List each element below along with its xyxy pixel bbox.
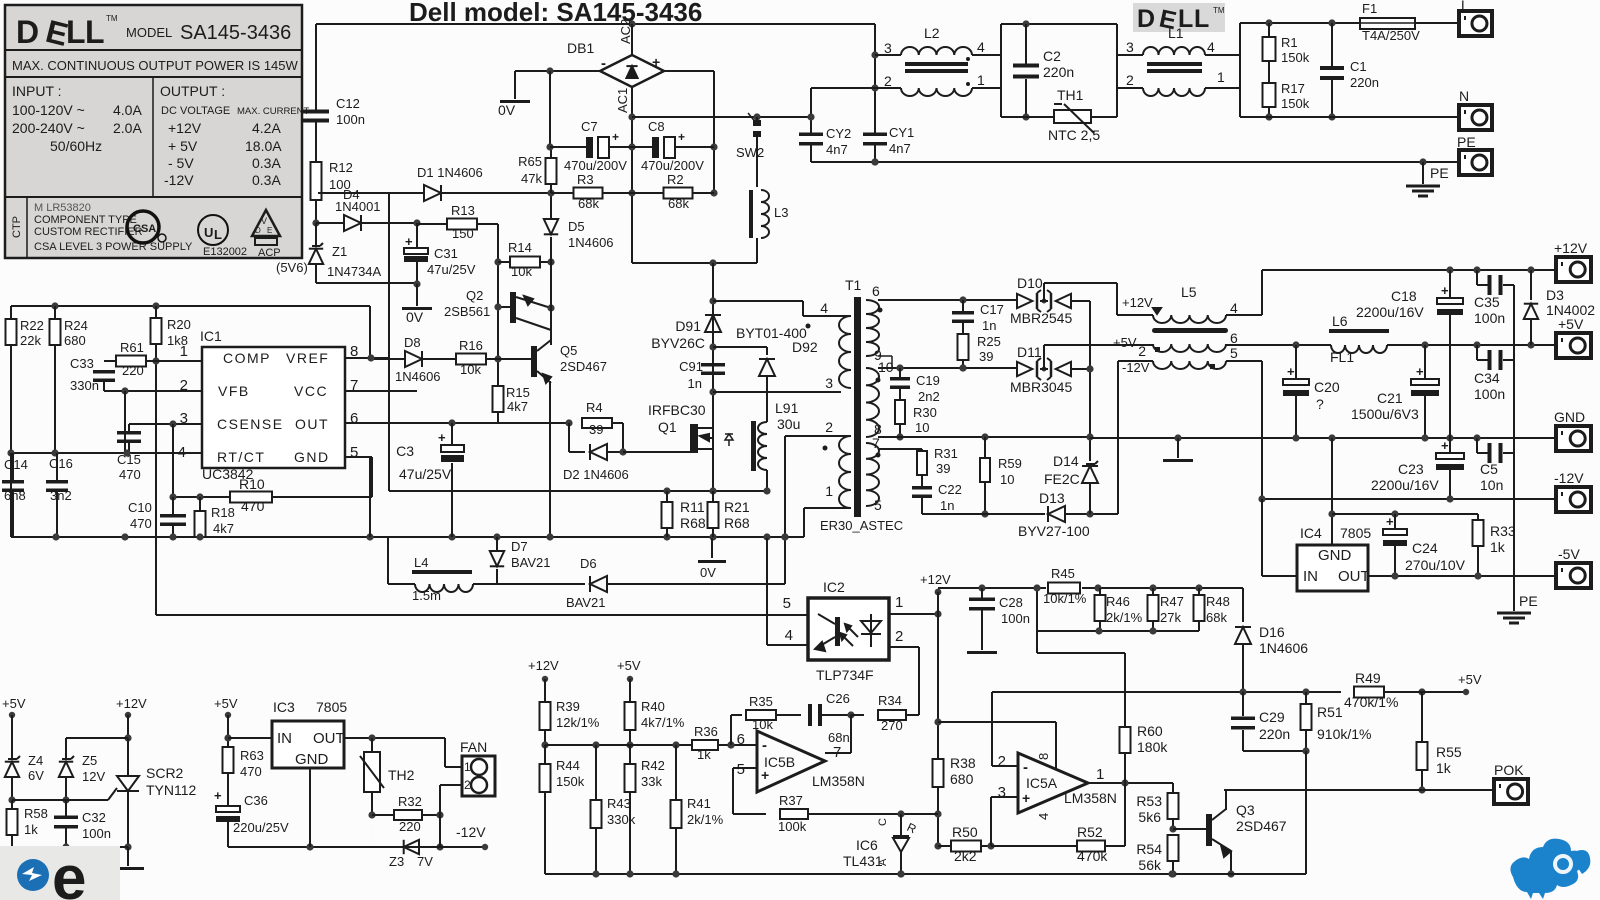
svg-text:200-240V ~: 200-240V ~ xyxy=(12,120,85,136)
svg-text:CSA LEVEL 3 POWER SUPPLY: CSA LEVEL 3 POWER SUPPLY xyxy=(34,241,193,253)
svg-text:OUT: OUT xyxy=(1338,568,1370,585)
svg-text:(5V6): (5V6) xyxy=(276,260,308,275)
svg-text:470u/200V: 470u/200V xyxy=(641,158,704,173)
svg-text:220n: 220n xyxy=(1043,64,1074,80)
svg-text:1: 1 xyxy=(825,483,833,499)
svg-text:12k/1%: 12k/1% xyxy=(556,715,600,730)
svg-text:10k/1%: 10k/1% xyxy=(1043,591,1087,606)
svg-text:VCC: VCC xyxy=(294,383,328,399)
svg-text:M LR53820: M LR53820 xyxy=(34,202,91,214)
svg-text:+: + xyxy=(1416,364,1424,379)
svg-text:OUT: OUT xyxy=(313,730,345,747)
svg-text:C7: C7 xyxy=(581,119,598,134)
svg-text:C29: C29 xyxy=(1259,709,1285,725)
svg-text:R43: R43 xyxy=(607,796,631,811)
svg-text:6: 6 xyxy=(737,731,745,748)
svg-text:4: 4 xyxy=(1207,39,1215,55)
svg-text:L: L xyxy=(66,14,86,50)
svg-text:CY1: CY1 xyxy=(889,125,914,140)
svg-text:V: V xyxy=(261,216,267,226)
svg-text:+12V: +12V xyxy=(528,658,559,673)
svg-text:C2: C2 xyxy=(1043,48,1061,64)
svg-text:MAX. CONTINUOUS OUTPUT POWER I: MAX. CONTINUOUS OUTPUT POWER IS 145W xyxy=(12,58,299,73)
svg-text:3: 3 xyxy=(884,40,892,56)
svg-text:TH2: TH2 xyxy=(388,767,415,783)
svg-text:SW2: SW2 xyxy=(736,145,764,160)
svg-text:R17: R17 xyxy=(1281,81,1305,96)
svg-text:150: 150 xyxy=(452,226,474,241)
svg-text:100n: 100n xyxy=(82,826,111,841)
svg-text:1N4606: 1N4606 xyxy=(395,369,441,384)
svg-text:100k: 100k xyxy=(778,819,807,834)
svg-text:TM: TM xyxy=(1213,6,1225,15)
svg-text:SA145-3436: SA145-3436 xyxy=(180,22,291,44)
svg-text:R55: R55 xyxy=(1436,744,1462,760)
svg-text:2.0A: 2.0A xyxy=(113,120,142,136)
svg-text:AC1: AC1 xyxy=(615,88,630,113)
svg-text:CY2: CY2 xyxy=(826,126,851,141)
svg-text:R32: R32 xyxy=(398,794,422,809)
svg-text:R30: R30 xyxy=(913,405,937,420)
svg-text:VREF: VREF xyxy=(286,350,329,366)
svg-text:4: 4 xyxy=(1230,300,1238,316)
svg-text:6n8: 6n8 xyxy=(4,488,26,503)
svg-text:NTC 2,5: NTC 2,5 xyxy=(1048,127,1100,143)
svg-text:T4A/250V: T4A/250V xyxy=(1362,28,1420,43)
svg-text:IC2: IC2 xyxy=(823,579,845,595)
svg-text:D3: D3 xyxy=(1546,287,1564,303)
svg-text:L1: L1 xyxy=(1168,25,1184,41)
svg-text:LM358N: LM358N xyxy=(812,773,865,789)
svg-text:1N4606: 1N4606 xyxy=(1259,640,1308,656)
svg-text:2k/1%: 2k/1% xyxy=(1106,610,1143,625)
svg-text:R42: R42 xyxy=(641,758,665,773)
svg-text:D16: D16 xyxy=(1259,624,1285,640)
svg-text:1: 1 xyxy=(977,72,985,88)
svg-text:5k6: 5k6 xyxy=(1138,809,1161,825)
svg-text:-: - xyxy=(601,55,606,72)
svg-text:27k: 27k xyxy=(1160,610,1181,625)
svg-text:+: + xyxy=(214,788,222,803)
svg-text:+12V: +12V xyxy=(1122,295,1153,310)
svg-text:R48: R48 xyxy=(1206,594,1230,609)
svg-text:Q5: Q5 xyxy=(560,343,577,358)
svg-text:L91: L91 xyxy=(775,400,799,416)
svg-text:2200u/16V: 2200u/16V xyxy=(1356,304,1424,320)
svg-text:?: ? xyxy=(1316,396,1324,412)
svg-text:ER30_ASTEC: ER30_ASTEC xyxy=(820,518,903,533)
svg-text:2: 2 xyxy=(884,73,892,89)
svg-text:C17: C17 xyxy=(980,302,1004,317)
svg-text:OUT: OUT xyxy=(295,416,329,432)
svg-text:2200u/16V: 2200u/16V xyxy=(1371,477,1439,493)
svg-text:Z1: Z1 xyxy=(332,244,347,259)
svg-text:+5V: +5V xyxy=(1558,316,1584,332)
svg-text:L: L xyxy=(1194,5,1209,33)
svg-text:4.2A: 4.2A xyxy=(252,120,281,136)
svg-text:1n: 1n xyxy=(940,498,954,513)
svg-text:D: D xyxy=(255,226,261,235)
svg-text:+5V: +5V xyxy=(617,658,641,673)
svg-text:1k8: 1k8 xyxy=(167,333,188,348)
svg-text:D1 1N4606: D1 1N4606 xyxy=(417,165,483,180)
svg-text:18.0A: 18.0A xyxy=(245,138,282,154)
svg-text:56k: 56k xyxy=(1138,857,1162,873)
svg-text:2: 2 xyxy=(1126,72,1134,88)
svg-text:N: N xyxy=(1459,88,1469,104)
svg-text:+5V: +5V xyxy=(1113,335,1137,350)
svg-text:1: 1 xyxy=(1217,69,1225,85)
svg-text:R4: R4 xyxy=(586,400,603,415)
svg-text:L: L xyxy=(214,227,222,242)
svg-text:3n2: 3n2 xyxy=(50,488,72,503)
svg-text:1n: 1n xyxy=(688,376,702,391)
svg-text:150k: 150k xyxy=(556,774,585,789)
svg-text:4k7/1%: 4k7/1% xyxy=(641,715,685,730)
svg-text:TLP734F: TLP734F xyxy=(816,667,874,683)
svg-text:D10: D10 xyxy=(1017,275,1043,291)
svg-text:8: 8 xyxy=(1036,753,1051,760)
svg-text:3: 3 xyxy=(1126,39,1134,55)
svg-text:R35: R35 xyxy=(749,694,773,709)
svg-text:R14: R14 xyxy=(508,240,532,255)
svg-text:1k: 1k xyxy=(697,747,711,762)
svg-text:U: U xyxy=(204,225,213,240)
svg-text:+: + xyxy=(405,234,413,249)
svg-text:C91: C91 xyxy=(679,359,703,374)
svg-text:220: 220 xyxy=(399,819,421,834)
svg-text:FAN: FAN xyxy=(460,739,487,755)
svg-text:10: 10 xyxy=(1000,472,1014,487)
svg-text:100-120V ~: 100-120V ~ xyxy=(12,102,85,118)
svg-text:39: 39 xyxy=(589,422,603,437)
svg-text:0V: 0V xyxy=(498,102,516,118)
svg-text:22k: 22k xyxy=(20,333,41,348)
svg-text:TYN112: TYN112 xyxy=(146,782,197,798)
svg-text:6: 6 xyxy=(1230,330,1238,346)
svg-text:C23: C23 xyxy=(1398,461,1424,477)
svg-text:470: 470 xyxy=(241,498,265,514)
svg-text:47k: 47k xyxy=(521,171,542,186)
svg-text:IC5A: IC5A xyxy=(1026,775,1058,791)
svg-text:150k: 150k xyxy=(1281,96,1310,111)
svg-text:BYT01-400: BYT01-400 xyxy=(736,325,807,341)
svg-text:2k2: 2k2 xyxy=(954,848,977,864)
svg-text:R45: R45 xyxy=(1051,566,1075,581)
svg-text:TM: TM xyxy=(106,14,118,23)
svg-text:+12V: +12V xyxy=(1554,240,1588,256)
svg-text:100n: 100n xyxy=(1001,611,1030,626)
svg-text:R10: R10 xyxy=(239,476,265,492)
svg-text:470u/200V: 470u/200V xyxy=(564,158,627,173)
svg-text:C33: C33 xyxy=(70,356,94,371)
svg-text:POK: POK xyxy=(1494,762,1524,778)
svg-text:5: 5 xyxy=(783,595,791,612)
svg-text:R68: R68 xyxy=(680,515,706,531)
svg-text:C8: C8 xyxy=(648,119,665,134)
svg-text:7805: 7805 xyxy=(316,699,347,715)
svg-text:L5: L5 xyxy=(1181,284,1197,300)
svg-text:220n: 220n xyxy=(1350,75,1379,90)
svg-text:6V: 6V xyxy=(28,768,44,783)
svg-text:C34: C34 xyxy=(1474,370,1500,386)
svg-text:2: 2 xyxy=(998,753,1006,770)
svg-text:39: 39 xyxy=(979,349,993,364)
svg-text:LM358N: LM358N xyxy=(1064,790,1117,806)
svg-text:R47: R47 xyxy=(1160,594,1184,609)
svg-text:+12V: +12V xyxy=(116,696,147,711)
svg-text:+: + xyxy=(612,130,619,144)
svg-text:GND: GND xyxy=(1554,409,1585,425)
svg-text:R51: R51 xyxy=(1317,704,1343,720)
svg-text:Z4: Z4 xyxy=(28,753,43,768)
svg-text:C18: C18 xyxy=(1391,288,1417,304)
svg-text:C32: C32 xyxy=(82,810,106,825)
svg-text:+12V: +12V xyxy=(920,572,951,587)
svg-text:D6: D6 xyxy=(580,556,597,571)
svg-text:IC1: IC1 xyxy=(200,328,222,344)
svg-text:L2: L2 xyxy=(924,25,940,41)
svg-text:C22: C22 xyxy=(938,482,962,497)
svg-text:1N4001: 1N4001 xyxy=(335,199,381,214)
svg-text:-12V: -12V xyxy=(1554,470,1584,486)
svg-text:1: 1 xyxy=(464,760,471,774)
svg-text:R18: R18 xyxy=(211,505,235,520)
svg-text:5: 5 xyxy=(1230,345,1238,361)
svg-text:470: 470 xyxy=(130,516,152,531)
svg-text:330k: 330k xyxy=(607,812,636,827)
svg-text:4n7: 4n7 xyxy=(826,142,848,157)
svg-text:FL1: FL1 xyxy=(1330,349,1354,365)
svg-text:R33: R33 xyxy=(1490,523,1516,539)
svg-text:D: D xyxy=(16,14,39,50)
svg-text:2: 2 xyxy=(895,628,903,645)
svg-text:INPUT :: INPUT : xyxy=(12,83,62,99)
svg-text:R60: R60 xyxy=(1137,723,1163,739)
svg-text:4: 4 xyxy=(1036,813,1051,820)
svg-text:470k: 470k xyxy=(1077,848,1108,864)
svg-text:+: + xyxy=(1386,514,1394,529)
svg-text:7V: 7V xyxy=(417,854,433,869)
svg-text:30u: 30u xyxy=(777,416,800,432)
svg-text:IC4: IC4 xyxy=(1300,525,1322,541)
svg-text:R16: R16 xyxy=(459,338,483,353)
svg-text:C5: C5 xyxy=(1480,461,1498,477)
svg-text:2: 2 xyxy=(464,778,471,792)
svg-text:50/60Hz: 50/60Hz xyxy=(50,138,102,154)
svg-text:R58: R58 xyxy=(24,806,48,821)
svg-text:1k: 1k xyxy=(24,822,38,837)
svg-text:E: E xyxy=(267,226,272,235)
svg-text:R20: R20 xyxy=(167,317,191,332)
svg-text:39: 39 xyxy=(936,461,950,476)
svg-text:R52: R52 xyxy=(1077,824,1103,840)
svg-text:+: + xyxy=(1022,790,1030,806)
svg-text:C1: C1 xyxy=(1350,59,1367,74)
svg-text:1N4734A: 1N4734A xyxy=(327,264,382,279)
svg-text:Q3: Q3 xyxy=(1236,802,1255,818)
svg-text:IRFBC30: IRFBC30 xyxy=(648,402,706,418)
svg-text:R15: R15 xyxy=(506,385,530,400)
svg-text:PE: PE xyxy=(1457,134,1476,150)
svg-text:L6: L6 xyxy=(1332,313,1348,329)
svg-text:C14: C14 xyxy=(4,457,28,472)
svg-text:R44: R44 xyxy=(556,758,580,773)
svg-text:R49: R49 xyxy=(1355,670,1381,686)
svg-text:D14: D14 xyxy=(1053,453,1079,469)
svg-text:D: D xyxy=(1137,5,1155,33)
svg-text:R41: R41 xyxy=(687,796,711,811)
svg-text:C19: C19 xyxy=(916,373,940,388)
svg-text:MODEL: MODEL xyxy=(126,25,172,40)
svg-text:1n: 1n xyxy=(982,318,996,333)
svg-text:-12V: -12V xyxy=(456,824,486,840)
svg-text:E132002: E132002 xyxy=(203,246,247,258)
svg-text:CSENSE: CSENSE xyxy=(217,416,284,432)
svg-text:AC2: AC2 xyxy=(618,19,633,44)
svg-text:GND: GND xyxy=(294,449,330,465)
svg-text:68k: 68k xyxy=(578,196,599,211)
svg-text:R11: R11 xyxy=(680,499,705,515)
svg-text:68k: 68k xyxy=(1206,610,1227,625)
svg-text:MBR2545: MBR2545 xyxy=(1010,310,1072,326)
svg-text:7805: 7805 xyxy=(1340,525,1371,541)
svg-text:0V: 0V xyxy=(700,565,716,580)
svg-text:220u/25V: 220u/25V xyxy=(233,820,289,835)
svg-text:680: 680 xyxy=(950,771,974,787)
svg-text:4n7: 4n7 xyxy=(889,141,911,156)
svg-text:100n: 100n xyxy=(336,112,365,127)
svg-text:Z3: Z3 xyxy=(389,854,404,869)
svg-text:3: 3 xyxy=(825,375,833,391)
svg-text:+: + xyxy=(1287,364,1295,379)
svg-text:47u/25V: 47u/25V xyxy=(427,262,476,277)
svg-text:220: 220 xyxy=(122,363,144,378)
svg-text:L4: L4 xyxy=(414,555,428,570)
svg-text:12V: 12V xyxy=(82,769,105,784)
svg-text:6: 6 xyxy=(350,410,358,427)
svg-text:2: 2 xyxy=(825,419,833,435)
svg-text:SCR2: SCR2 xyxy=(146,765,184,781)
svg-text:180k: 180k xyxy=(1137,739,1168,755)
svg-text:6: 6 xyxy=(872,283,880,299)
svg-text:+: + xyxy=(761,767,769,783)
svg-text:4: 4 xyxy=(785,627,793,644)
svg-text:470: 470 xyxy=(119,467,141,482)
svg-text:IC3: IC3 xyxy=(273,699,295,715)
svg-text:IN: IN xyxy=(277,730,292,747)
svg-text:1500u/6V3: 1500u/6V3 xyxy=(1351,406,1419,422)
svg-text:R37: R37 xyxy=(779,793,803,808)
svg-text:MAX. CURRENT: MAX. CURRENT xyxy=(237,106,310,117)
svg-text:R59: R59 xyxy=(998,456,1022,471)
svg-text:R63: R63 xyxy=(240,748,264,763)
svg-text:R68: R68 xyxy=(724,515,750,531)
svg-text:R50: R50 xyxy=(952,824,978,840)
svg-text:270: 270 xyxy=(881,718,903,733)
svg-text:330n: 330n xyxy=(70,378,99,393)
svg-text:C21: C21 xyxy=(1377,390,1403,406)
svg-text:470: 470 xyxy=(240,764,262,779)
svg-text:COMP: COMP xyxy=(223,350,271,366)
svg-text:PE: PE xyxy=(1519,593,1538,609)
svg-text:C36: C36 xyxy=(244,793,268,808)
svg-text:BAV21: BAV21 xyxy=(511,555,551,570)
svg-text:2SD467: 2SD467 xyxy=(1236,818,1287,834)
svg-text:150k: 150k xyxy=(1281,50,1310,65)
svg-text:2SB561: 2SB561 xyxy=(444,304,490,319)
svg-text:+: + xyxy=(652,54,660,70)
svg-text:GND: GND xyxy=(1318,547,1352,564)
svg-text:5: 5 xyxy=(874,497,882,513)
svg-text:R38: R38 xyxy=(950,755,976,771)
svg-text:33k: 33k xyxy=(641,774,662,789)
svg-text:10k: 10k xyxy=(511,264,532,279)
svg-text:CSA: CSA xyxy=(133,223,156,235)
svg-text:1N4606: 1N4606 xyxy=(568,235,614,250)
svg-text:1k: 1k xyxy=(1436,760,1452,776)
svg-text:100n: 100n xyxy=(1474,386,1505,402)
svg-text:R31: R31 xyxy=(934,446,958,461)
svg-text:Dell model: SA145-3436: Dell model: SA145-3436 xyxy=(409,0,702,27)
svg-text:+: + xyxy=(1441,438,1449,453)
svg-text:1.5m: 1.5m xyxy=(412,588,441,603)
svg-text:C35: C35 xyxy=(1474,294,1500,310)
svg-text:0V: 0V xyxy=(406,309,424,325)
svg-text:100n: 100n xyxy=(1474,310,1505,326)
svg-text:R1: R1 xyxy=(1281,35,1298,50)
svg-text:10n: 10n xyxy=(1480,477,1503,493)
svg-text:+: + xyxy=(1441,283,1449,298)
svg-text:-12V: -12V xyxy=(164,172,194,188)
svg-text:D2 1N4606: D2 1N4606 xyxy=(563,467,629,482)
svg-text:C26: C26 xyxy=(826,691,850,706)
svg-text:R65: R65 xyxy=(518,154,542,169)
svg-text:D92: D92 xyxy=(792,339,818,355)
svg-text:0.3A: 0.3A xyxy=(252,155,281,171)
svg-text:OUTPUT :: OUTPUT : xyxy=(160,83,225,99)
svg-text:D13: D13 xyxy=(1039,490,1065,506)
svg-text:C24: C24 xyxy=(1412,540,1438,556)
svg-text:10k: 10k xyxy=(460,362,481,377)
svg-text:1k: 1k xyxy=(1490,539,1506,555)
svg-text:T1: T1 xyxy=(845,277,862,293)
svg-text:+5V: +5V xyxy=(214,696,238,711)
svg-text:F1: F1 xyxy=(1362,1,1377,16)
svg-text:R39: R39 xyxy=(556,699,580,714)
svg-text:2k/1%: 2k/1% xyxy=(687,812,724,827)
svg-text:IC6: IC6 xyxy=(856,837,878,853)
svg-text:CTP: CTP xyxy=(11,216,23,238)
svg-text:COMPONENT TYPE: COMPONENT TYPE xyxy=(34,214,137,226)
svg-text:RT/CT: RT/CT xyxy=(217,449,265,465)
svg-text:GND: GND xyxy=(295,751,329,768)
svg-text:R36: R36 xyxy=(694,724,718,739)
svg-text:-: - xyxy=(1023,759,1028,776)
svg-text:ACP: ACP xyxy=(258,247,281,259)
svg-text:Z5: Z5 xyxy=(82,753,97,768)
svg-text:-5V: -5V xyxy=(1558,546,1580,562)
svg-text:+: + xyxy=(678,130,685,144)
svg-text:0.3A: 0.3A xyxy=(252,172,281,188)
svg-text:68k: 68k xyxy=(668,196,689,211)
svg-text:- 5V: - 5V xyxy=(168,155,194,171)
svg-text:220n: 220n xyxy=(1259,726,1290,742)
svg-text:R25: R25 xyxy=(977,334,1001,349)
svg-text:4k7: 4k7 xyxy=(213,521,234,536)
svg-text:10k: 10k xyxy=(752,717,773,732)
svg-text:C12: C12 xyxy=(336,96,360,111)
